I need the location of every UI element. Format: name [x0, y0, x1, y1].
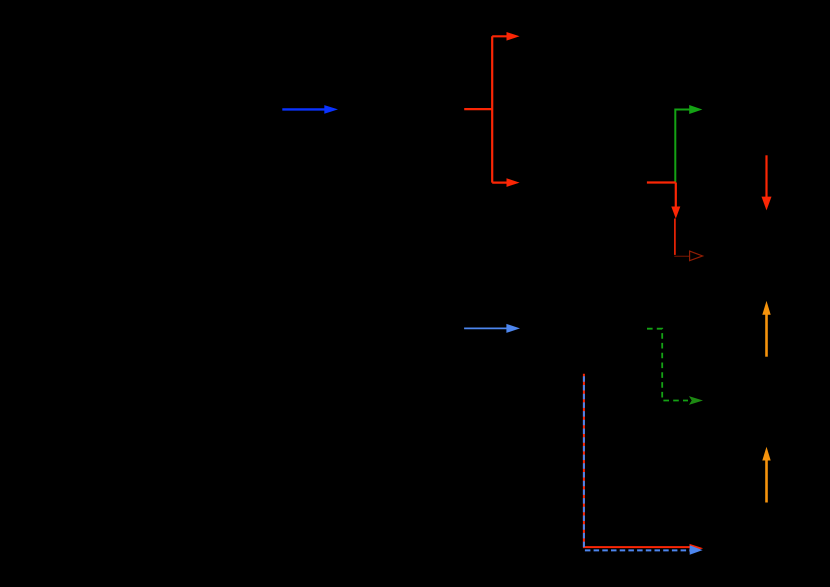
arrow orange up 1 — [762, 301, 770, 357]
arrow blue A (solid horizontal, row 1) — [282, 105, 338, 114]
maroon connector line — [674, 255, 689, 257]
arrow green solid (up-then-right, row 1) — [675, 105, 702, 182]
thin red continuation line — [674, 219, 676, 255]
arrow red junction (stub then down) — [647, 183, 680, 219]
arrow red down (right column) — [762, 155, 772, 210]
arrow red L (solid, under blue dashed) — [584, 374, 703, 553]
arrow orange up 2 — [762, 447, 770, 503]
maroon open arrowhead — [690, 251, 703, 261]
arrow blue dashed L (on top of red) — [584, 376, 703, 555]
red bracket (split arrow, two branches) — [464, 32, 519, 187]
arrow green dashed (right-down-right) — [647, 329, 703, 405]
arrow blue B (solid horizontal, row 2) — [464, 324, 520, 333]
